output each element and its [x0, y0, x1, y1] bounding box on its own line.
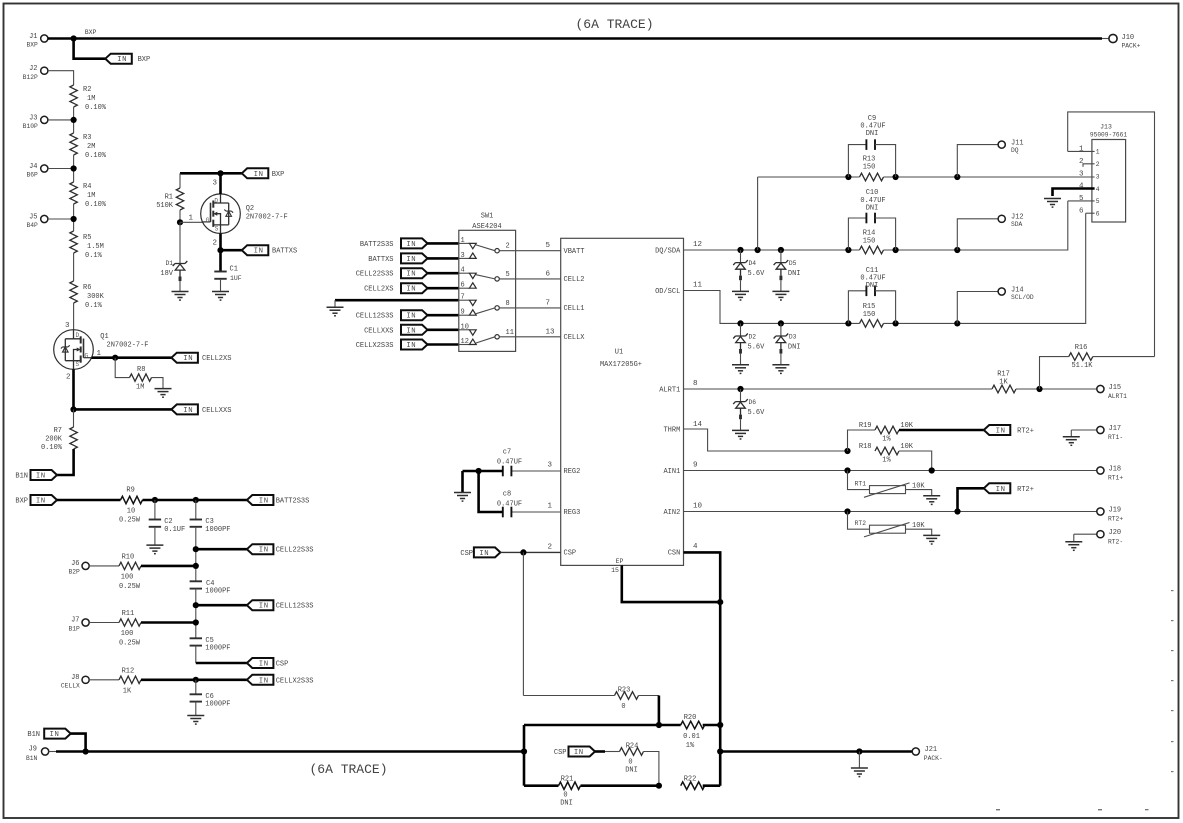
svg-text:D: D — [76, 332, 80, 339]
wire R11 to C5 node — [141, 621, 196, 624]
svg-text:G: G — [206, 217, 210, 224]
resistor R8 1M — [115, 358, 129, 378]
wire Q1 gate to CELL2XS — [92, 356, 172, 359]
SW1 pole 5 — [495, 277, 499, 281]
resistor R21 0 DNI — [559, 782, 581, 789]
connector J18 — [1097, 467, 1104, 474]
svg-text:0.1%: 0.1% — [85, 302, 103, 310]
resistor R7 200K — [73, 409, 75, 427]
connector J3 — [41, 116, 48, 123]
zener diode D3 DNI — [780, 323, 782, 336]
node D5 — [778, 247, 784, 253]
wire CELL2XS to SW1 — [428, 287, 459, 290]
ground at J13 pin4 — [1044, 199, 1061, 208]
svg-text:1UF: 1UF — [230, 275, 242, 282]
node Q2 gate junction — [177, 219, 183, 225]
tag CELL2XS IN to SW1 — [401, 283, 428, 294]
svg-text:D1: D1 — [165, 260, 173, 267]
svg-text:0.1UF: 0.1UF — [164, 526, 185, 534]
wire Q1 source to CELLXXS — [72, 369, 75, 409]
connector J15 — [1097, 385, 1104, 392]
svg-text:CSP: CSP — [460, 550, 473, 558]
svg-text:100: 100 — [121, 630, 134, 638]
svg-text:MAX17205G+: MAX17205G+ — [600, 361, 642, 369]
node J6 row junction — [193, 563, 199, 569]
svg-text:CELLXXS: CELLXXS — [364, 327, 393, 335]
svg-text:CSN: CSN — [668, 550, 681, 558]
wire AIN1 net — [684, 470, 1097, 472]
node D6 — [737, 386, 743, 392]
svg-text:RT2+: RT2+ — [1017, 486, 1034, 494]
svg-text:1%: 1% — [686, 742, 695, 750]
SW1 pin 1 — [459, 242, 470, 244]
ground under D3 — [772, 365, 789, 374]
connector J17 — [1071, 429, 1097, 431]
tag B1N IN — [31, 470, 58, 481]
svg-text:13: 13 — [546, 328, 556, 336]
tag IN CELL2XS — [171, 353, 198, 364]
svg-text:RT1-: RT1- — [1108, 434, 1123, 441]
wire R10 to C4 node — [141, 565, 196, 568]
svg-text:CELLXXS: CELLXXS — [202, 407, 231, 415]
node J21 ground junction — [856, 748, 862, 754]
svg-text:J8: J8 — [71, 674, 79, 682]
svg-text:15: 15 — [611, 567, 619, 574]
svg-text:10K: 10K — [912, 482, 925, 490]
svg-text:4: 4 — [1096, 186, 1100, 193]
svg-text:J6: J6 — [71, 560, 79, 568]
resistor R20 0.01 1% — [681, 721, 705, 729]
ground under RT2 — [923, 535, 940, 544]
svg-text:18V: 18V — [160, 270, 173, 278]
node Q2 drain junction — [217, 170, 223, 176]
wire CELLX2S3S to SW1 — [428, 343, 459, 346]
svg-text:R19: R19 — [859, 422, 872, 430]
svg-text:R9: R9 — [126, 486, 134, 494]
svg-text:B10P: B10P — [23, 123, 38, 130]
ground under D5 — [772, 291, 789, 300]
svg-text:C5: C5 — [205, 637, 213, 645]
svg-text:D6: D6 — [749, 399, 757, 406]
node D3 — [778, 320, 784, 326]
wire to IN CELL22S3S tag — [196, 548, 247, 551]
ground wire to SW1 pin7 — [335, 299, 459, 302]
resistor R15 150 — [860, 320, 884, 328]
svg-text:CSP: CSP — [554, 749, 567, 757]
svg-text:S: S — [76, 361, 80, 368]
connector J1 — [41, 35, 48, 42]
svg-text:PACK-: PACK- — [924, 755, 943, 762]
wire CELLXXS to SW1 — [428, 328, 459, 331]
tag BATT2S3S IN to SW1 — [401, 238, 428, 249]
svg-text:D2: D2 — [749, 334, 757, 341]
svg-text:AIN2: AIN2 — [663, 509, 680, 517]
svg-text:10: 10 — [693, 502, 703, 510]
wire CELL22S3S to SW1 — [428, 272, 459, 275]
ground at J17 — [1063, 437, 1080, 446]
wire CSP sense vertical — [522, 552, 524, 695]
svg-text:0: 0 — [563, 792, 567, 800]
svg-text:BATT2S3S: BATT2S3S — [360, 241, 394, 249]
svg-text:RT1+: RT1+ — [1108, 475, 1123, 482]
svg-text:B6P: B6P — [26, 172, 38, 179]
resistor R18 10K 1% — [875, 447, 899, 455]
svg-text:R24: R24 — [626, 742, 639, 750]
svg-text:6: 6 — [546, 270, 551, 278]
svg-text:510K: 510K — [156, 202, 174, 210]
wire J2 — [48, 71, 74, 85]
svg-text:c8: c8 — [503, 491, 511, 499]
svg-text:R11: R11 — [122, 610, 135, 618]
svg-text:R18: R18 — [859, 443, 872, 451]
svg-text:(6A TRACE): (6A TRACE) — [575, 17, 653, 32]
wire CELL12S3S to SW1 — [428, 314, 459, 317]
svg-text:5: 5 — [1079, 195, 1084, 203]
tag IN CELL22S3S — [247, 544, 274, 555]
tag CSP IN at R24 — [569, 747, 596, 758]
ground under D6 — [732, 430, 749, 439]
tag IN BATTXS — [242, 245, 268, 256]
svg-text:2: 2 — [1096, 161, 1100, 168]
svg-text:J4: J4 — [29, 163, 37, 171]
node CSP junction — [520, 549, 526, 555]
node J14 drop — [954, 320, 960, 326]
thermistor RT2 10K — [848, 512, 870, 530]
svg-text:R10: R10 — [122, 554, 135, 562]
node BXP junction at J1 — [71, 35, 77, 41]
svg-text:1: 1 — [189, 215, 194, 223]
capacitor C10 0.47UF DNI — [848, 218, 866, 250]
connector J12 — [957, 219, 998, 250]
svg-text:0.25W: 0.25W — [119, 517, 141, 525]
svg-text:5.6V: 5.6V — [748, 270, 766, 278]
resistor R23 0 — [523, 695, 614, 697]
svg-text:0.25W: 0.25W — [119, 639, 141, 647]
svg-text:5.6V: 5.6V — [748, 343, 766, 351]
svg-text:J2: J2 — [29, 65, 37, 73]
svg-text:c7: c7 — [503, 448, 511, 456]
svg-text:R16: R16 — [1075, 344, 1088, 352]
wire stub to IN BXP tag — [74, 39, 106, 59]
connector J20 — [1074, 533, 1097, 535]
svg-text:J20: J20 — [1109, 529, 1122, 537]
svg-text:C2: C2 — [164, 518, 172, 526]
svg-text:J15: J15 — [1109, 384, 1122, 392]
svg-text:0.10%: 0.10% — [85, 201, 107, 209]
wire SW1 to U1 row 7 — [516, 307, 561, 309]
svg-text:J13: J13 — [1100, 124, 1112, 131]
node main row left — [521, 748, 527, 754]
svg-text:2N7002-7-F: 2N7002-7-F — [246, 214, 288, 222]
node D4 — [737, 247, 743, 253]
svg-text:14: 14 — [693, 421, 703, 429]
node RT2 drop — [844, 508, 850, 514]
wire B1N tag to J9 row — [71, 734, 86, 752]
wire J4 — [48, 168, 74, 170]
transistor Q1 2N7002-7-F — [54, 330, 94, 370]
connector J14 — [957, 292, 998, 324]
wire DQ/SDA net — [684, 249, 860, 251]
svg-text:SCL/OD: SCL/OD — [1011, 294, 1034, 301]
svg-text:R21: R21 — [561, 776, 574, 784]
wire EP to bus — [622, 565, 720, 602]
wire BATTXS to SW1 — [428, 257, 459, 260]
svg-text:0.25W: 0.25W — [119, 583, 141, 591]
wire OD/SCL net — [684, 291, 860, 324]
svg-text:2: 2 — [66, 373, 71, 381]
svg-text:J5: J5 — [29, 214, 37, 222]
resistor R17 1K — [992, 385, 1016, 393]
tag BATTXS IN to SW1 — [401, 253, 428, 264]
wire R6 to Q1 drain — [73, 303, 75, 330]
svg-text:CELLX: CELLX — [61, 683, 80, 690]
svg-text:DNI: DNI — [866, 130, 879, 138]
node RT2+ tag drop — [954, 508, 960, 514]
svg-text:B1N: B1N — [27, 731, 40, 739]
svg-text:1%: 1% — [882, 457, 891, 465]
svg-text:DNI: DNI — [866, 204, 879, 212]
svg-text:J9: J9 — [29, 746, 37, 754]
wire R1 to gate node — [179, 210, 181, 222]
svg-text:OD/SCL: OD/SCL — [655, 288, 680, 296]
svg-text:DNI: DNI — [560, 800, 573, 808]
J13 bracket to R16 — [1068, 112, 1155, 357]
wire main row to J21 — [720, 750, 912, 753]
node R15 right — [893, 320, 899, 326]
connector J4 — [41, 165, 48, 172]
ground under D4 — [732, 291, 749, 300]
svg-text:9: 9 — [693, 461, 698, 469]
svg-text:DNI: DNI — [788, 343, 801, 351]
svg-text:R4: R4 — [83, 183, 91, 191]
svg-text:2: 2 — [547, 543, 552, 551]
wire R7 to B1N tag — [57, 449, 74, 475]
connector J21 — [912, 748, 919, 755]
zener diode D6 5.6V — [740, 389, 742, 402]
capacitor C4 1000PF — [190, 581, 202, 588]
node R20 left — [656, 722, 662, 728]
svg-text:D3: D3 — [789, 334, 797, 341]
wire R9 to BATT2S3S tag — [143, 499, 247, 502]
svg-text:RT2+: RT2+ — [1017, 428, 1034, 436]
svg-text:U1: U1 — [615, 349, 623, 357]
node RT1 drop — [844, 467, 850, 473]
svg-text:D5: D5 — [789, 260, 797, 267]
node CELL22S3S junction — [193, 546, 199, 552]
node main row right — [717, 748, 723, 754]
node D2 — [737, 320, 743, 326]
svg-text:7: 7 — [546, 299, 551, 307]
svg-text:1: 1 — [547, 503, 552, 511]
svg-text:J3: J3 — [29, 114, 37, 122]
svg-text:12: 12 — [693, 241, 702, 249]
svg-text:RT2: RT2 — [855, 520, 867, 527]
resistor R12 1K — [89, 679, 119, 681]
zener diode D1 18V — [179, 222, 181, 263]
ground at J20 — [1065, 542, 1082, 551]
wire to IN CSP tag — [196, 662, 247, 665]
J13 pin2 stub — [1083, 164, 1095, 167]
svg-text:CELL12S3S: CELL12S3S — [276, 603, 314, 611]
connector J13 95009-7661 — [1092, 140, 1126, 223]
node DQ branch — [755, 247, 761, 253]
svg-text:D: D — [214, 197, 218, 204]
zener diode D5 DNI — [780, 250, 782, 263]
svg-text:RT1: RT1 — [855, 481, 867, 488]
svg-text:1000PF: 1000PF — [205, 588, 230, 596]
svg-text:3: 3 — [65, 322, 70, 330]
svg-text:0.10%: 0.10% — [85, 104, 107, 112]
resistor R6 — [70, 281, 77, 303]
connector J6 — [82, 562, 89, 569]
svg-text:8: 8 — [693, 380, 698, 388]
tag CELL12S3S IN to SW1 — [401, 310, 428, 321]
svg-text:2M: 2M — [87, 143, 95, 151]
node BATTXS junction — [217, 247, 223, 253]
node R21/R22 junction — [656, 783, 662, 789]
node CELLXXS junction — [70, 406, 76, 412]
svg-text:G: G — [85, 353, 89, 360]
wire BXP to R9 — [57, 499, 121, 502]
svg-text:10K: 10K — [900, 422, 913, 430]
resistor R22 — [681, 782, 705, 790]
J13 pin4 ground wire — [1053, 189, 1095, 197]
J13 pin6 stub — [1086, 212, 1095, 214]
wire THRM net — [684, 429, 848, 451]
wire CSP tag stub — [595, 750, 605, 753]
svg-text:95009-7661: 95009-7661 — [1090, 132, 1127, 139]
svg-text:ASE4204: ASE4204 — [472, 223, 501, 231]
svg-text:BXP: BXP — [272, 171, 285, 179]
wire CSN to vertical bus — [684, 552, 721, 785]
wire J5 — [48, 218, 74, 220]
tag IN RT2+ lower — [984, 483, 1011, 494]
svg-text:J19: J19 — [1109, 507, 1122, 515]
wire DQ row up — [757, 177, 759, 250]
resistor R5 — [70, 231, 77, 253]
connector J5 — [41, 215, 48, 222]
svg-text:10: 10 — [127, 507, 135, 515]
svg-text:0.10%: 0.10% — [41, 444, 63, 452]
node EP junction — [717, 599, 723, 605]
svg-text:C4: C4 — [206, 580, 214, 588]
svg-text:7: 7 — [461, 294, 465, 302]
svg-text:9: 9 — [461, 309, 465, 317]
svg-text:R22: R22 — [684, 776, 697, 784]
resistor R19 10K 1% — [848, 430, 876, 451]
wire BXP net to Q2 drain — [180, 172, 242, 175]
svg-text:3: 3 — [461, 252, 465, 260]
resistor R4 — [70, 182, 77, 204]
ground stub at J21 row — [858, 752, 860, 769]
svg-text:BATTXS: BATTXS — [272, 248, 297, 256]
svg-text:CELL1: CELL1 — [564, 305, 585, 313]
svg-text:BATT2S3S: BATT2S3S — [276, 498, 310, 506]
svg-text:5.6V: 5.6V — [748, 409, 766, 417]
svg-text:5: 5 — [506, 271, 510, 279]
svg-text:1: 1 — [97, 350, 102, 358]
wire to IN BATTXS tag — [221, 249, 242, 252]
SW1 pole 11 — [495, 335, 499, 339]
svg-text:J7: J7 — [71, 617, 79, 625]
node CELL2XS junction — [112, 355, 118, 361]
wire R1 top — [179, 173, 181, 188]
node R18 bottom — [929, 467, 935, 473]
svg-text:CELL12S3S: CELL12S3S — [356, 313, 394, 321]
svg-text:1%: 1% — [882, 436, 891, 444]
resistor R1 — [176, 188, 183, 210]
svg-text:THRM: THRM — [663, 426, 680, 434]
SW1 pin 4 — [459, 272, 470, 274]
node J11 drop — [954, 174, 960, 180]
op-amp U1 MAX17205G+ body — [561, 238, 684, 565]
pin 2 Q2 source — [219, 234, 222, 251]
tag IN CELL12S3S — [247, 600, 274, 611]
svg-text:5: 5 — [1096, 198, 1100, 205]
svg-text:1: 1 — [1079, 146, 1084, 154]
svg-text:RT2+: RT2+ — [1108, 516, 1123, 523]
ground under D2 — [732, 365, 749, 374]
wire SW1 to U1 row 13 — [516, 336, 561, 338]
svg-text:51.1K: 51.1K — [1071, 362, 1093, 370]
wire to IN CELL12S3S tag — [196, 604, 247, 607]
node R16/R17 — [1036, 386, 1042, 392]
svg-text:5: 5 — [546, 242, 551, 250]
svg-text:1.5M: 1.5M — [87, 243, 104, 251]
wire RT2+ tag to AIN2 — [958, 488, 984, 511]
svg-text:ALRT1: ALRT1 — [1108, 393, 1127, 400]
transistor Q2 2N7002-7-F — [201, 194, 241, 234]
SW1 pin 9 — [459, 314, 470, 316]
wire to IN CELLXXS tag — [74, 408, 172, 411]
capacitor C6 1000PF — [195, 680, 197, 695]
svg-text:B12P: B12P — [23, 74, 38, 81]
svg-text:C3: C3 — [205, 518, 213, 526]
svg-text:1M: 1M — [87, 192, 95, 200]
SW1 pin 7 — [459, 299, 470, 301]
node J12 drop — [954, 247, 960, 253]
thermistor RT1 10K — [848, 471, 870, 490]
wire CSP tag to U1 — [500, 551, 560, 553]
node R14 left — [845, 247, 851, 253]
node R14 right — [893, 247, 899, 253]
svg-text:R20: R20 — [684, 714, 697, 722]
svg-text:1: 1 — [1096, 149, 1100, 156]
svg-text:CELLX: CELLX — [564, 334, 586, 342]
capacitor C8 0.47UF — [511, 511, 560, 513]
resistor R14 150 — [860, 246, 884, 254]
connector J7 — [82, 619, 89, 626]
tag IN BXP at Q2 — [242, 168, 268, 179]
connector J11 — [957, 145, 998, 177]
connector J9 — [42, 748, 49, 755]
ground near J21 — [851, 768, 868, 777]
svg-text:6: 6 — [1079, 207, 1084, 215]
svg-text:10: 10 — [461, 323, 469, 331]
capacitor C11 0.47UF DNI — [848, 291, 866, 324]
capacitor C5 1000PF — [190, 638, 202, 645]
wire SW1 to U1 row 6 — [516, 278, 561, 280]
resistor R16 51.1K — [1040, 357, 1069, 389]
svg-text:PACK+: PACK+ — [1122, 43, 1141, 50]
svg-text:R5: R5 — [83, 234, 91, 242]
wire to IN CELLX2S3S tag — [196, 678, 247, 681]
SW1 pole 8 — [495, 306, 499, 310]
svg-text:DNI: DNI — [788, 270, 801, 278]
svg-text:VBATT: VBATT — [564, 248, 585, 256]
svg-text:2N7002-7-F: 2N7002-7-F — [107, 341, 149, 349]
resistor R11 100 0.25W — [89, 622, 119, 624]
